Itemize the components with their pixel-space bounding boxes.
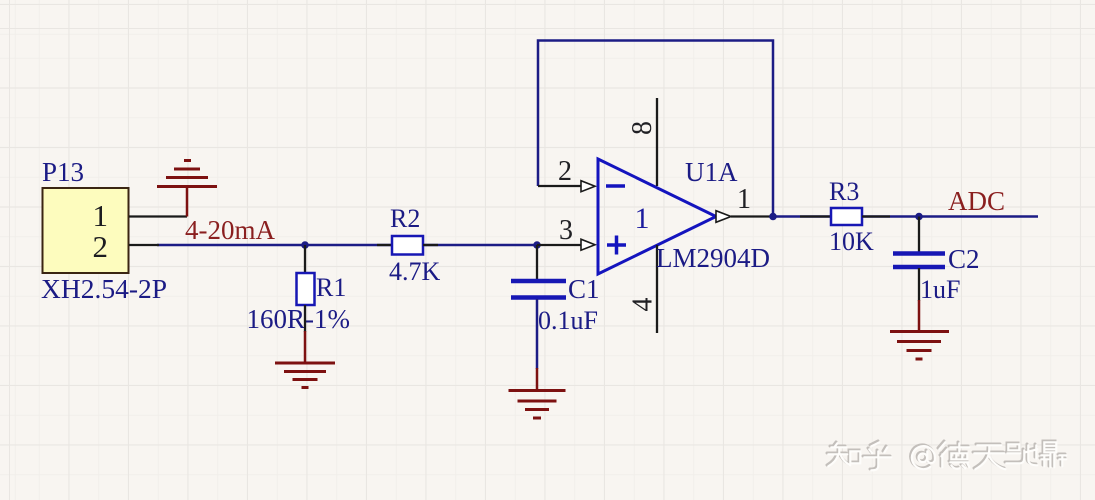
svg-text:U1A: U1A	[685, 157, 738, 187]
capacitor C1	[511, 281, 566, 298]
svg-text:XH2.54-2P: XH2.54-2P	[41, 273, 167, 304]
op-amp output arrow pin 1	[716, 211, 731, 223]
svg-text:P13: P13	[42, 157, 84, 187]
capacitor C2 value 1uF	[920, 275, 960, 304]
ground GND3 below C1	[509, 368, 566, 418]
wire C2 top pin	[918, 217, 920, 253]
resistor R3 designator	[829, 177, 859, 206]
junction node at op-amp output	[769, 213, 777, 221]
svg-text:1: 1	[635, 202, 650, 235]
wire pin1 of P13 to ground	[129, 215, 187, 217]
svg-text:1uF: 1uF	[920, 275, 960, 304]
svg-text:1: 1	[737, 184, 751, 215]
wire C2 bottom to ground	[918, 268, 920, 301]
wire R1 bottom pin	[304, 305, 306, 332]
op-amp pin 4 line	[656, 245, 658, 333]
op-amp pin 8 line	[656, 98, 658, 186]
wire op-amp pin2 stub	[538, 185, 581, 187]
wire output junction to R3 and to ADC	[773, 215, 1038, 218]
wire op-amp pin3 stub	[537, 244, 581, 246]
svg-text:3: 3	[559, 215, 573, 246]
ground GND4 below C2	[890, 300, 949, 359]
resistor R3	[831, 208, 862, 225]
op-amp value LM2904D	[656, 243, 770, 273]
net label 4-20mA	[185, 215, 275, 245]
resistor R1 value 160R-1%	[247, 304, 351, 334]
pin number 1 of P13	[93, 198, 109, 233]
watermark zhihu @detianchiding (drawn strokes, embossed)	[827, 441, 1066, 470]
pin 3 input arrow	[581, 239, 595, 250]
capacitor C1 value 0.1uF	[538, 306, 598, 335]
connector P13 value label XH2.54-2P	[41, 273, 167, 304]
svg-text:R1: R1	[316, 273, 346, 302]
junction node at C2 top	[915, 213, 923, 221]
resistor R2 designator	[390, 204, 420, 233]
svg-text:C1: C1	[568, 274, 600, 304]
resistor R2	[392, 236, 423, 255]
junction node at C1 / pin3	[533, 241, 541, 249]
svg-text:160R-1%: 160R-1%	[247, 304, 351, 334]
op-amp U1A feedback wire	[538, 41, 773, 217]
wire R1 top pin	[304, 245, 306, 273]
pin 8 label (rotated)	[627, 121, 658, 135]
svg-text:4: 4	[628, 298, 659, 312]
junction node at R1 top	[301, 241, 309, 249]
pin number 2 of P13	[93, 229, 109, 264]
ground GND2 below R1	[275, 331, 335, 388]
svg-text:1: 1	[93, 198, 109, 233]
connector P13 body	[43, 188, 129, 273]
wire pin2 stub of P13	[129, 244, 159, 246]
wire C1 bottom to ground	[536, 299, 539, 369]
svg-text:4-20mA: 4-20mA	[185, 215, 275, 245]
op-amp designator U1A	[685, 157, 738, 187]
wire R3 right pin	[862, 215, 890, 217]
svg-text:R2: R2	[390, 204, 420, 233]
svg-text:LM2904D: LM2904D	[656, 243, 770, 273]
wire R3 left pin	[800, 215, 831, 217]
wire C1 top pin	[536, 245, 538, 279]
svg-text:ADC: ADC	[948, 186, 1005, 216]
connector P13 designator label	[42, 157, 84, 187]
svg-text:8: 8	[627, 121, 658, 135]
svg-text:2: 2	[93, 229, 109, 264]
pin 2 input arrow	[581, 181, 595, 192]
wire R2 left pin	[377, 244, 392, 246]
net label ADC	[948, 186, 1005, 216]
ground GND1 (earth symbol above P13 pin 1)	[157, 161, 217, 217]
pin 3 label	[559, 215, 573, 246]
svg-text:C2: C2	[948, 244, 980, 274]
svg-text:10K: 10K	[829, 227, 874, 256]
op-amp minus sign	[606, 184, 625, 188]
resistor R1 designator	[316, 273, 346, 302]
pin 2 label	[558, 156, 572, 187]
wire R2 right pin	[423, 244, 438, 246]
svg-text:0.1uF: 0.1uF	[538, 306, 598, 335]
op-amp plus sign	[607, 236, 626, 255]
capacitor C2 designator	[948, 244, 980, 274]
wire op-amp output to junction	[731, 215, 773, 217]
op-amp U1A triangle	[598, 159, 716, 274]
svg-text:4.7K: 4.7K	[389, 257, 441, 286]
wire net 4-20mA (main horizontal)	[157, 244, 538, 247]
capacitor C2	[893, 254, 945, 268]
svg-text:R3: R3	[829, 177, 859, 206]
svg-text:2: 2	[558, 156, 572, 187]
capacitor C1 designator	[568, 274, 600, 304]
pin 4 label (rotated)	[628, 298, 659, 312]
pin 1 output label	[737, 184, 751, 215]
resistor R3 value 10K	[829, 227, 874, 256]
resistor R1	[297, 273, 315, 305]
op-amp part number 1 inside	[635, 202, 650, 235]
resistor R2 value 4.7K	[389, 257, 441, 286]
